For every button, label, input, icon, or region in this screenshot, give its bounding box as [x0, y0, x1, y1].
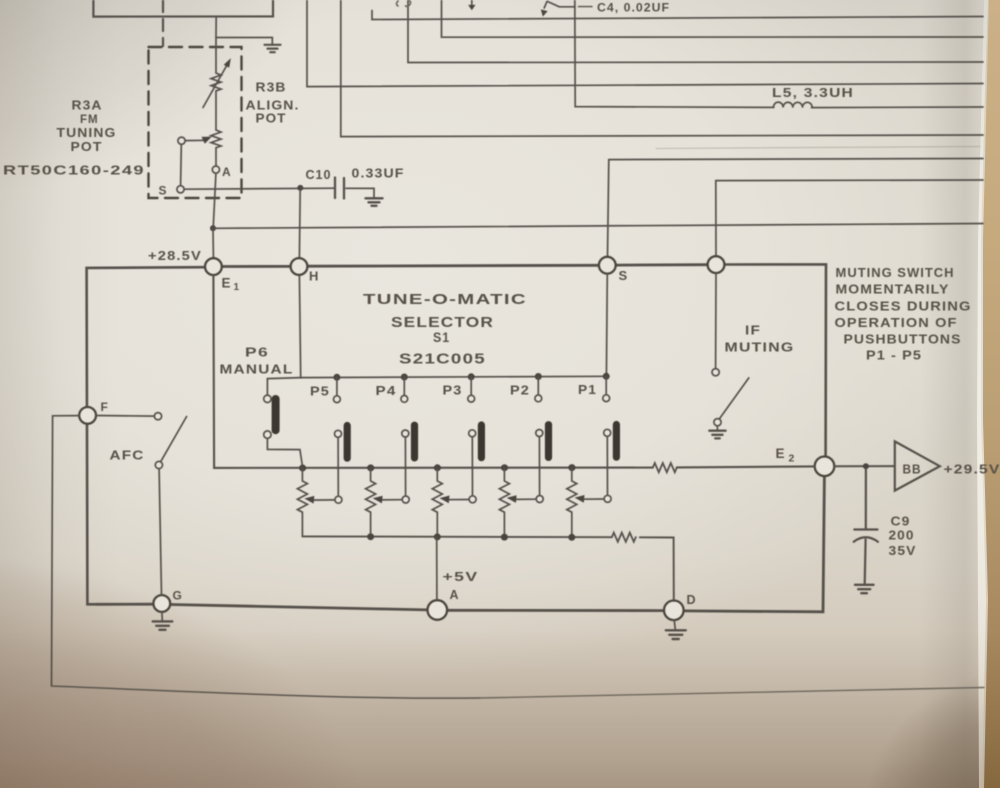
terminal F [79, 407, 96, 424]
terminal E1 [205, 258, 222, 275]
svg-text:PUSHBUTTONS: PUSHBUTTONS [844, 332, 962, 347]
svg-text:G: G [173, 589, 183, 603]
resistor R3B (align pot element) [211, 38, 221, 131]
wire F outer loop [52, 416, 80, 686]
P6 top contact [264, 395, 271, 402]
node P3 [468, 373, 475, 380]
svg-text:POT: POT [256, 112, 287, 126]
svg-text:H: H [309, 269, 319, 284]
svg-text:S1: S1 [433, 329, 450, 345]
wire bus B [442, 0, 984, 37]
svg-text:P5: P5 [310, 385, 330, 399]
resistor R (lower bus) [612, 533, 636, 542]
potentiometer 5 [567, 468, 577, 538]
terminal S2 (unlabeled) [708, 256, 725, 273]
switch SW1 [604, 425, 617, 503]
potentiometer 2 [366, 468, 376, 537]
node pot2 bottom [367, 533, 374, 540]
dashed wire into R3A box [162, 0, 164, 46]
C4 label dash [579, 6, 593, 8]
terminal S [599, 257, 616, 274]
svg-text:ALIGN.: ALIGN. [246, 99, 300, 113]
wire node to E1 [212, 228, 214, 258]
svg-text:1: 1 [234, 282, 241, 293]
potentiometer 1 [297, 468, 307, 536]
terminal E2 [815, 457, 835, 477]
ground (C10) [366, 198, 383, 206]
switch SW5 [335, 426, 348, 504]
IF muting upper contact [712, 369, 719, 376]
svg-text:MOMENTARILY: MOMENTARILY [836, 282, 950, 297]
svg-text:TUNING: TUNING [57, 126, 117, 140]
svg-text:P1: P1 [578, 383, 597, 397]
svg-text:OPERATION OF: OPERATION OF [835, 315, 958, 330]
ground (R3B) [265, 45, 281, 52]
svg-text:FM: FM [80, 114, 99, 126]
wiper arrow pot 2 [373, 496, 402, 504]
potentiometer 4 [499, 468, 509, 538]
node pot5 bottom [568, 534, 575, 541]
wiper arrow pot 3 [440, 496, 469, 504]
wire to ground [716, 426, 718, 430]
svg-text:TUNE-O-MATIC: TUNE-O-MATIC [363, 291, 527, 308]
wire G to ground [161, 612, 163, 621]
switch SW3 [469, 425, 482, 503]
wire bus E continues [812, 106, 984, 109]
wire bus D [307, 0, 983, 87]
svg-text:35V: 35V [889, 544, 917, 558]
wire F to AFC switch [96, 415, 154, 418]
selector top edge E1-H [222, 265, 291, 268]
wire R3B top to box [215, 17, 217, 38]
ground (C9) [855, 585, 874, 593]
pin P5 [334, 377, 341, 402]
node pot4 bottom [501, 534, 508, 541]
svg-text:P3: P3 [443, 384, 463, 398]
AFC blade [161, 417, 187, 462]
ground (D) [666, 630, 686, 639]
terminal A of R3A [212, 166, 219, 173]
svg-text:MUTING: MUTING [725, 341, 795, 355]
wire bottom outer run [52, 686, 481, 698]
P6 plunger bar [272, 399, 280, 430]
node P2 [535, 373, 542, 380]
wire bus A (top) [372, 11, 983, 20]
selector top edge H-S [307, 264, 599, 268]
node +28.5V junction [210, 225, 216, 231]
svg-text:D: D [687, 593, 697, 607]
svg-text:E: E [222, 276, 232, 291]
crease line [656, 147, 980, 149]
svg-text:F: F [101, 400, 109, 414]
top-left component box [93, 0, 273, 17]
terminal A [428, 600, 448, 620]
svg-text:C4, 0.02UF: C4, 0.02UF [597, 1, 670, 15]
svg-text:P6: P6 [245, 346, 269, 360]
wire R3B top to ground [216, 38, 272, 45]
switch AFC upper contact [154, 413, 161, 420]
wiper arrow pot 5 [575, 495, 604, 503]
AFC lower contact [155, 461, 162, 468]
wire wiper to S terminal [180, 145, 183, 186]
svg-text:S21C005: S21C005 [399, 352, 486, 368]
switch P6: riser [266, 379, 268, 395]
wire long feed to right edge [213, 224, 983, 229]
arrow symbol top 1 [468, 0, 475, 10]
node pot3 top [434, 464, 441, 471]
terminal G [153, 595, 170, 612]
pin P2 [535, 377, 542, 402]
svg-text:2: 2 [789, 453, 796, 465]
svg-text:RT50C160-249: RT50C160-249 [3, 164, 145, 178]
wiper arrow pot 4 [507, 495, 536, 503]
svg-text:S: S [159, 184, 168, 198]
R3B adjustment arrow [203, 58, 231, 107]
node pot2 top [367, 464, 374, 471]
pin P4 [401, 377, 408, 402]
svg-text:S: S [619, 268, 629, 283]
svg-text:P1 - P5: P1 - P5 [866, 348, 922, 363]
selector bottom edge A-G [171, 605, 428, 610]
potentiometer 3 [432, 468, 442, 537]
capacitor C9 [854, 469, 878, 584]
svg-text:BB: BB [903, 462, 922, 477]
selector top edge S-S2 [616, 263, 708, 266]
svg-text:A: A [222, 165, 232, 179]
capacitor C10 [335, 178, 344, 199]
svg-text:L5, 3.3UH: L5, 3.3UH [772, 86, 854, 100]
svg-text:C10: C10 [306, 168, 332, 182]
text fragment top edge [397, 1, 411, 7]
resistor R3A (tuning pot element) [211, 130, 221, 166]
svg-text:P4: P4 [376, 384, 397, 398]
wire AFC to G [159, 469, 161, 595]
svg-text:R3B: R3B [256, 81, 287, 95]
P-bus wire [267, 376, 606, 378]
svg-text:+28.5V: +28.5V [148, 249, 202, 263]
node P4 [401, 374, 408, 381]
selector bottom edge G-corner [96, 603, 153, 606]
svg-text:E: E [776, 446, 786, 461]
svg-text:A: A [450, 588, 460, 602]
pin P3 [468, 377, 475, 402]
wire bottom outer run right [480, 688, 984, 699]
svg-text:200: 200 [889, 529, 915, 543]
wire D to ground [674, 620, 675, 629]
ground (G) [153, 621, 173, 629]
svg-text:+29.5V: +29.5V [944, 462, 1000, 477]
selector right edge E2 to bottom corner [684, 476, 825, 611]
wire E1 down to main bus [213, 275, 652, 468]
node P1 [603, 373, 610, 380]
IF muting lower contact [714, 419, 721, 426]
terminal D [664, 601, 684, 621]
node pot4 top [501, 464, 508, 471]
switch SW4 [402, 425, 415, 503]
wire P6 to bus [267, 438, 302, 466]
selector bottom edge D-A [447, 609, 664, 612]
wire bus G from S terminal [608, 159, 984, 257]
node C10/H junction [297, 185, 303, 191]
terminal S of R3A [177, 186, 184, 193]
arrow symbol top 2 (transistor lead) [541, 2, 548, 17]
wire S to C10 node [184, 188, 334, 189]
switch SW2 [536, 425, 549, 503]
dashed outline R3A tuning pot box [149, 47, 242, 198]
node P5 [333, 374, 340, 381]
wire resistor to E2 [677, 466, 815, 467]
pin P1 [603, 376, 610, 401]
terminal H [291, 258, 308, 275]
wire bus E with L5 [575, 0, 774, 107]
svg-text:C9: C9 [891, 515, 911, 529]
R3A wiper arrow [185, 137, 212, 144]
wire C4 link [547, 1, 575, 6]
selector top edge S2-corner and right edge down to E2 [724, 264, 826, 456]
wire bus C [408, 0, 983, 63]
wire H to P-bus [299, 275, 300, 377]
IF muting blade [720, 378, 749, 418]
svg-text:P2: P2 [510, 384, 530, 398]
switch IF muting: riser [715, 273, 717, 369]
wiper arrow pot 1 [304, 496, 334, 504]
wire E2 to BB [834, 465, 894, 467]
svg-text:MANUAL: MANUAL [220, 363, 294, 377]
wire lower bus [302, 535, 611, 538]
node pot3 bottom [434, 533, 441, 540]
svg-text:AFC: AFC [110, 449, 145, 463]
svg-text:IF: IF [745, 324, 761, 338]
wire S down to P1 [605, 274, 608, 377]
selector box outline left/top [87, 267, 206, 604]
ground (IF muting) [709, 431, 725, 439]
op-amp BB buffer [895, 441, 940, 490]
inductor L5 [773, 102, 812, 107]
resistor R (series to E2) [653, 463, 677, 472]
svg-text:POT: POT [71, 140, 103, 154]
wire C10 to ground [346, 188, 374, 197]
wire H riser (node to H to P-bus) [298, 188, 301, 258]
wire bus H from S2 terminal [716, 180, 983, 256]
svg-text:0.33UF: 0.33UF [352, 167, 405, 181]
node C9 junction [863, 463, 869, 469]
node pot1 top [299, 465, 306, 472]
wire lower bus to D [640, 537, 674, 600]
svg-text:R3A: R3A [72, 99, 103, 113]
wiper pick-off circle [178, 137, 185, 144]
wire A down to +28.5V node [213, 173, 216, 228]
P6 bottom contact [264, 431, 271, 438]
svg-text:+5V: +5V [443, 570, 479, 584]
svg-text:CLOSES DURING: CLOSES DURING [835, 298, 972, 313]
wire A riser [436, 537, 438, 600]
wire bus F [341, 0, 983, 137]
svg-text:MUTING SWITCH: MUTING SWITCH [836, 265, 955, 280]
node pot5 top [568, 464, 575, 471]
